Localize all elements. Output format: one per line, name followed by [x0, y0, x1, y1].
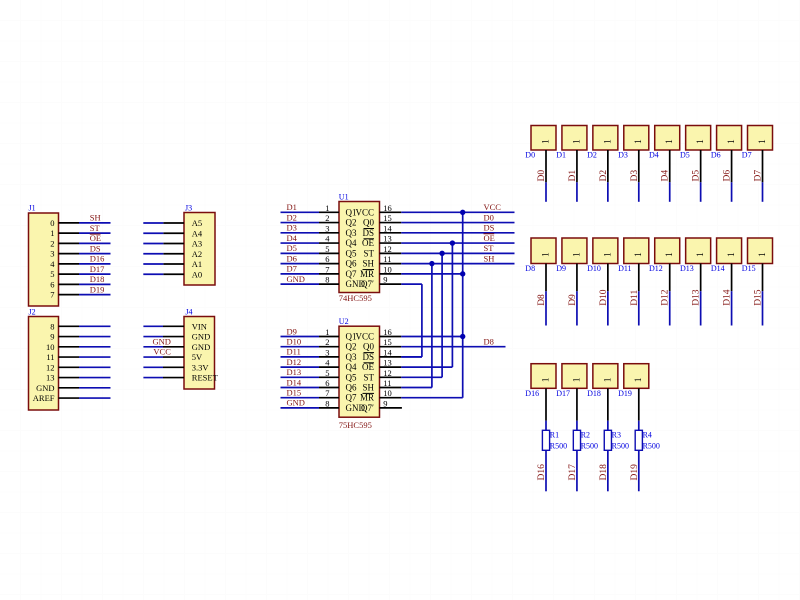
svg-text:8: 8: [50, 321, 54, 331]
svg-text:D9: D9: [287, 326, 297, 336]
U2 pin 8 wire / net GND: [281, 398, 340, 408]
LED D13 wire / net D13: [692, 264, 702, 326]
svg-text:U2: U2: [339, 317, 349, 326]
svg-text:3: 3: [325, 347, 329, 357]
svg-text:VCC: VCC: [484, 202, 502, 212]
svg-text:Q4: Q4: [346, 362, 357, 372]
svg-text:D3: D3: [287, 223, 297, 233]
LED D17 wire / net D17: [568, 388, 578, 491]
svg-text:GND: GND: [287, 274, 305, 284]
J1 pin 0 wire / net SH: [59, 213, 111, 223]
svg-text:1: 1: [758, 252, 768, 257]
LED D8 wire / net D8: [537, 264, 547, 326]
svg-text:R1: R1: [550, 430, 559, 439]
svg-text:D19: D19: [630, 464, 640, 481]
U1 pin 12 wire / net ST: [380, 243, 515, 253]
J2 pin 9 wire: [59, 336, 111, 338]
LED D6 wire / net D6: [723, 150, 733, 202]
U2 pin 6 wire / net D14: [281, 377, 340, 387]
U2 pin 7 wire / net D15: [281, 388, 340, 398]
J1 pin 6 wire / net D18: [59, 274, 111, 284]
svg-text:D9: D9: [568, 294, 578, 306]
svg-text:Q5: Q5: [346, 372, 357, 382]
LED D1: [556, 126, 587, 160]
svg-text:SH: SH: [90, 213, 101, 223]
svg-text:ST: ST: [484, 243, 495, 253]
LED D18 wire / net D18: [599, 388, 609, 491]
svg-text:1: 1: [572, 377, 582, 382]
U2 pin 1 wire / net D9: [281, 326, 340, 336]
svg-text:16: 16: [383, 327, 392, 337]
LED D4 wire / net D4: [661, 150, 671, 202]
svg-text:13: 13: [383, 234, 392, 244]
J4 pin RESET wire: [143, 377, 184, 379]
svg-text:D7: D7: [754, 170, 764, 182]
svg-text:D18: D18: [599, 464, 609, 481]
svg-text:D8: D8: [525, 264, 535, 273]
svg-text:Q7′: Q7′: [361, 279, 374, 289]
J4 pin GND wire: [143, 336, 184, 338]
svg-text:GND: GND: [287, 398, 305, 408]
svg-text:2: 2: [325, 337, 329, 347]
svg-text:D1: D1: [568, 170, 578, 182]
U1 pin 3 wire / net D3: [281, 223, 340, 233]
svg-text:6: 6: [325, 254, 329, 264]
svg-text:A3: A3: [192, 239, 202, 249]
svg-text:1: 1: [634, 252, 644, 257]
LED D0 wire / net D0: [537, 150, 547, 202]
svg-text:D12: D12: [649, 264, 663, 273]
J4 pin GND wire / net GND: [143, 336, 184, 347]
svg-text:9: 9: [383, 275, 387, 285]
svg-text:GND: GND: [152, 336, 170, 346]
J3 pin A2 wire: [143, 253, 184, 255]
svg-text:11: 11: [383, 378, 391, 388]
svg-text:U1: U1: [339, 193, 349, 202]
LED D8: [525, 238, 556, 273]
svg-text:GND: GND: [192, 332, 210, 342]
svg-text:12: 12: [46, 362, 55, 372]
U1 pin 11 wire / net SH: [380, 253, 515, 263]
J2 pin 10 wire: [59, 346, 111, 348]
wire vertical ST bus: [441, 253, 443, 377]
connector J3: [184, 204, 215, 286]
LED D14 wire / net D14: [723, 264, 733, 326]
LED D15: [742, 238, 773, 273]
svg-text:1: 1: [325, 327, 329, 337]
junction VCC rail / U1 pin 16: [460, 210, 465, 215]
J2 pin GND wire: [59, 387, 111, 389]
svg-text:1: 1: [696, 252, 706, 257]
U2 pin 12 wire (ST): [380, 376, 443, 378]
J1 pin 1 wire / net ST: [59, 223, 111, 233]
svg-text:2: 2: [50, 238, 54, 248]
svg-text:D8: D8: [537, 294, 547, 306]
svg-text:D17: D17: [90, 264, 105, 274]
LED D15 wire / net D15: [754, 264, 764, 326]
svg-text:D13: D13: [692, 289, 702, 306]
svg-text:1: 1: [634, 139, 644, 144]
svg-text:MR: MR: [360, 269, 374, 279]
J1 pin 4 wire / net D16: [59, 254, 111, 264]
svg-text:8: 8: [325, 275, 329, 285]
U2 pin 11 wire (SH): [380, 387, 432, 389]
svg-text:R500: R500: [612, 442, 629, 451]
svg-text:D4: D4: [649, 151, 659, 160]
svg-text:D14: D14: [287, 377, 302, 387]
J2 pin AREF wire: [59, 397, 111, 399]
svg-text:R4: R4: [643, 430, 652, 439]
svg-text:1: 1: [541, 377, 551, 382]
svg-text:1: 1: [50, 228, 54, 238]
LED D17: [556, 364, 587, 398]
U2 pin 13 wire (OE): [380, 366, 453, 368]
J1 pin 7 wire / net D19: [59, 284, 111, 294]
svg-text:9: 9: [383, 398, 387, 408]
svg-text:VCC: VCC: [153, 347, 171, 357]
svg-text:Q3: Q3: [346, 352, 357, 362]
junction ST bus / U1 pin 12: [439, 251, 444, 256]
LED D19 wire / net D19: [630, 388, 640, 491]
svg-text:SH: SH: [362, 259, 374, 269]
LED D9: [556, 238, 587, 273]
LED D9 wire / net D9: [568, 264, 578, 326]
LED D6: [711, 126, 742, 160]
U2 pin 14 wire (DS): [380, 356, 422, 358]
connector J1: [29, 204, 59, 307]
U2 pin 15 wire / net D8: [380, 337, 506, 347]
LED D11 wire / net D11: [630, 264, 640, 326]
svg-text:1: 1: [696, 139, 706, 144]
svg-text:D0: D0: [537, 170, 547, 182]
svg-text:10: 10: [46, 342, 55, 352]
svg-text:1: 1: [541, 252, 551, 257]
svg-text:14: 14: [383, 223, 392, 233]
svg-text:1: 1: [572, 252, 582, 257]
svg-text:Q4: Q4: [346, 238, 357, 248]
svg-text:A2: A2: [192, 249, 202, 259]
wire vertical SH bus: [431, 264, 433, 388]
svg-text:D16: D16: [90, 254, 105, 264]
svg-text:6: 6: [325, 378, 329, 388]
svg-text:D8: D8: [484, 337, 494, 347]
svg-text:7: 7: [50, 290, 54, 300]
svg-text:1: 1: [603, 139, 613, 144]
resistor R1 R500: [542, 430, 567, 450]
J3 pin A1 wire: [143, 263, 184, 265]
svg-text:1: 1: [758, 139, 768, 144]
svg-text:15: 15: [383, 213, 392, 223]
svg-text:1: 1: [572, 139, 582, 144]
svg-text:D11: D11: [287, 347, 301, 357]
U2 pin 16 wire (VCC): [380, 336, 463, 338]
svg-text:D1: D1: [556, 151, 566, 160]
U2 pin 2 wire / net D10: [281, 337, 340, 347]
LED D12: [649, 238, 680, 273]
svg-text:D2: D2: [599, 170, 609, 182]
wire vertical OE bus: [451, 243, 453, 367]
U1 pin 9 wire (Q7' cascade to U2 DS): [380, 284, 422, 357]
junction VCC rail / U2 pin 16: [460, 334, 465, 339]
LED D2: [587, 126, 618, 160]
svg-text:10: 10: [383, 388, 392, 398]
svg-text:Q7: Q7: [346, 269, 357, 279]
svg-text:OE: OE: [90, 233, 101, 243]
svg-text:5: 5: [325, 244, 329, 254]
U1 pin 14 wire / net DS: [380, 223, 515, 233]
svg-text:5: 5: [325, 368, 329, 378]
svg-text:1: 1: [665, 252, 675, 257]
svg-text:D10: D10: [599, 289, 609, 306]
LED D10: [587, 238, 618, 273]
LED D19: [618, 364, 649, 398]
svg-text:Q2: Q2: [346, 342, 357, 352]
U2 pin 3 wire / net D11: [281, 347, 340, 357]
svg-text:RESET: RESET: [192, 373, 219, 383]
svg-text:15: 15: [383, 337, 392, 347]
svg-text:7: 7: [325, 388, 329, 398]
svg-text:Q6: Q6: [346, 259, 357, 269]
svg-text:D5: D5: [680, 151, 690, 160]
LED D12 wire / net D12: [661, 264, 671, 326]
J2 pin 11 wire: [59, 356, 111, 358]
svg-text:74HC595: 74HC595: [339, 293, 372, 303]
svg-text:D10: D10: [287, 337, 302, 347]
J2 pin 8 wire: [59, 325, 111, 327]
svg-text:D7: D7: [742, 151, 752, 160]
svg-text:VIN: VIN: [192, 321, 207, 331]
shift register U2: [325, 317, 392, 430]
LED D3 wire / net D3: [630, 150, 640, 202]
LED D4: [649, 126, 680, 160]
LED D7: [742, 126, 773, 160]
svg-text:A1: A1: [192, 259, 202, 269]
svg-text:D6: D6: [711, 151, 721, 160]
resistor R4 R500: [635, 430, 660, 450]
svg-text:D1: D1: [287, 202, 297, 212]
J3 pin A5 wire: [143, 222, 184, 224]
svg-text:3: 3: [325, 223, 329, 233]
J1 pin 2 wire / net OE: [59, 233, 111, 243]
svg-text:D19: D19: [618, 389, 632, 398]
svg-text:9: 9: [50, 332, 54, 342]
svg-text:D15: D15: [287, 388, 302, 398]
U1 pin 15 wire / net D0: [380, 212, 515, 222]
svg-text:8: 8: [325, 398, 329, 408]
svg-text:D11: D11: [618, 264, 631, 273]
svg-text:ST: ST: [90, 223, 101, 233]
svg-text:R3: R3: [612, 430, 621, 439]
svg-text:D0: D0: [525, 151, 535, 160]
svg-text:D7: D7: [287, 264, 297, 274]
svg-text:D9: D9: [556, 264, 566, 273]
LED D10 wire / net D10: [599, 264, 609, 326]
J3 pin A4 wire: [143, 232, 184, 234]
svg-text:OE: OE: [484, 233, 495, 243]
svg-text:DS: DS: [90, 243, 101, 253]
junction VCC rail / U1 pin 10: [460, 271, 465, 276]
U2 pin 9 stub: [380, 407, 402, 409]
LED D18: [587, 364, 618, 398]
svg-text:J3: J3: [185, 204, 192, 213]
LED D1 wire / net D1: [568, 150, 578, 202]
svg-text:SH: SH: [484, 253, 495, 263]
svg-text:5: 5: [50, 269, 54, 279]
svg-text:R500: R500: [581, 442, 598, 451]
svg-text:R2: R2: [581, 430, 590, 439]
svg-text:2: 2: [325, 213, 329, 223]
svg-text:D13: D13: [287, 367, 302, 377]
U2 pin 5 wire / net D13: [281, 367, 340, 377]
svg-text:DS: DS: [362, 228, 374, 238]
svg-text:D12: D12: [287, 357, 302, 367]
LED D5: [680, 126, 711, 160]
svg-text:D18: D18: [90, 274, 105, 284]
svg-text:D10: D10: [587, 264, 601, 273]
svg-text:D17: D17: [568, 464, 578, 481]
svg-text:D5: D5: [287, 243, 297, 253]
LED D0: [525, 126, 556, 160]
svg-text:D17: D17: [556, 389, 570, 398]
LED D13: [680, 238, 711, 273]
svg-text:1: 1: [325, 203, 329, 213]
svg-text:OE: OE: [362, 362, 374, 372]
svg-text:D3: D3: [618, 151, 628, 160]
svg-text:13: 13: [383, 358, 392, 368]
svg-text:12: 12: [383, 244, 392, 254]
svg-text:1: 1: [541, 139, 551, 144]
connector J4: [184, 308, 219, 390]
svg-text:75HC595: 75HC595: [339, 420, 372, 430]
U1 pin 16 wire / net VCC: [380, 202, 515, 212]
svg-text:0: 0: [50, 218, 54, 228]
svg-text:OE: OE: [362, 238, 374, 248]
resistor R2 R500: [573, 430, 598, 450]
svg-text:Q2: Q2: [346, 218, 357, 228]
svg-text:D16: D16: [537, 464, 547, 481]
U2 pin 10 wire (MR): [380, 397, 463, 399]
LED D3: [618, 126, 649, 160]
U1 pin 10 wire (MR to VCC rail): [380, 273, 463, 275]
svg-text:DS: DS: [484, 223, 495, 233]
svg-text:D13: D13: [680, 264, 694, 273]
svg-text:D19: D19: [90, 284, 105, 294]
svg-text:ST: ST: [363, 248, 374, 258]
svg-text:J1: J1: [29, 204, 36, 213]
svg-text:D5: D5: [692, 170, 702, 182]
svg-text:1: 1: [727, 139, 737, 144]
svg-text:1: 1: [603, 252, 613, 257]
U1 pin 13 wire / net OE: [380, 233, 515, 243]
svg-text:14: 14: [383, 347, 392, 357]
U1 pin 5 wire / net D5: [281, 243, 340, 253]
svg-text:D16: D16: [525, 389, 539, 398]
J2 pin 13 wire: [59, 377, 111, 379]
svg-text:D14: D14: [711, 264, 725, 273]
U1 pin 6 wire / net D6: [281, 253, 340, 263]
LED D16 wire / net D16: [537, 388, 547, 491]
J2 pin 12 wire: [59, 366, 111, 368]
svg-text:1: 1: [665, 139, 675, 144]
svg-text:AREF: AREF: [33, 393, 55, 403]
svg-text:Q7′: Q7′: [361, 403, 374, 413]
svg-text:R500: R500: [643, 442, 660, 451]
svg-text:GND: GND: [192, 342, 210, 352]
svg-text:R500: R500: [550, 442, 567, 451]
svg-text:10: 10: [383, 264, 392, 274]
svg-text:D3: D3: [630, 170, 640, 182]
svg-text:D4: D4: [661, 170, 671, 182]
svg-text:A5: A5: [192, 218, 202, 228]
svg-text:D15: D15: [754, 289, 764, 306]
svg-text:Q3: Q3: [346, 228, 357, 238]
J1 pin 3 wire / net DS: [59, 243, 111, 253]
svg-text:A0: A0: [192, 269, 202, 279]
svg-text:11: 11: [46, 352, 54, 362]
connector J2: [29, 308, 59, 411]
svg-text:D11: D11: [630, 290, 640, 306]
svg-text:D18: D18: [587, 389, 601, 398]
svg-text:D12: D12: [661, 289, 671, 306]
svg-text:1: 1: [634, 377, 644, 382]
J4 pin VIN wire: [143, 325, 184, 327]
svg-text:Q5: Q5: [346, 248, 357, 258]
junction SH bus / U1 pin 11: [429, 261, 434, 266]
J1 pin 5 wire / net D17: [59, 264, 111, 274]
U1 pin 1 wire / net D1: [281, 202, 340, 212]
shift register U1: [325, 193, 392, 303]
svg-text:1: 1: [603, 377, 613, 382]
svg-text:DS: DS: [362, 352, 374, 362]
svg-text:D0: D0: [484, 212, 494, 222]
LED D5 wire / net D5: [692, 150, 702, 202]
wire vertical VCC/MR bus: [462, 212, 464, 397]
svg-text:D14: D14: [723, 289, 733, 306]
svg-text:SH: SH: [362, 383, 374, 393]
svg-text:MR: MR: [360, 393, 374, 403]
svg-text:D15: D15: [742, 264, 756, 273]
svg-text:D6: D6: [287, 253, 297, 263]
U1 pin 8 wire / net GND: [281, 274, 340, 284]
svg-text:Q0: Q0: [363, 342, 374, 352]
resistor R3 R500: [604, 430, 629, 450]
svg-text:7: 7: [325, 264, 329, 274]
svg-text:GND: GND: [36, 383, 54, 393]
LED D2 wire / net D2: [599, 150, 609, 202]
J4 pin 3.3V wire: [143, 366, 184, 368]
svg-text:Q7: Q7: [346, 393, 357, 403]
svg-text:VCC: VCC: [355, 332, 374, 342]
svg-text:A4: A4: [192, 228, 203, 238]
LED D14: [711, 238, 742, 273]
svg-text:D4: D4: [287, 233, 298, 243]
U2 pin 4 wire / net D12: [281, 357, 340, 367]
svg-text:D2: D2: [587, 151, 597, 160]
svg-text:J4: J4: [185, 308, 192, 317]
svg-text:Q0: Q0: [363, 218, 374, 228]
U1 pin 7 wire / net D7: [281, 264, 340, 274]
svg-text:16: 16: [383, 203, 392, 213]
svg-text:13: 13: [46, 373, 55, 383]
U1 pin 4 wire / net D4: [281, 233, 340, 243]
svg-text:12: 12: [383, 368, 392, 378]
U1 pin 2 wire / net D2: [281, 212, 340, 222]
svg-text:D2: D2: [287, 212, 297, 222]
svg-text:3.3V: 3.3V: [192, 362, 210, 372]
svg-text:VCC: VCC: [355, 207, 374, 217]
LED D16: [525, 364, 556, 398]
svg-text:J2: J2: [29, 308, 36, 317]
